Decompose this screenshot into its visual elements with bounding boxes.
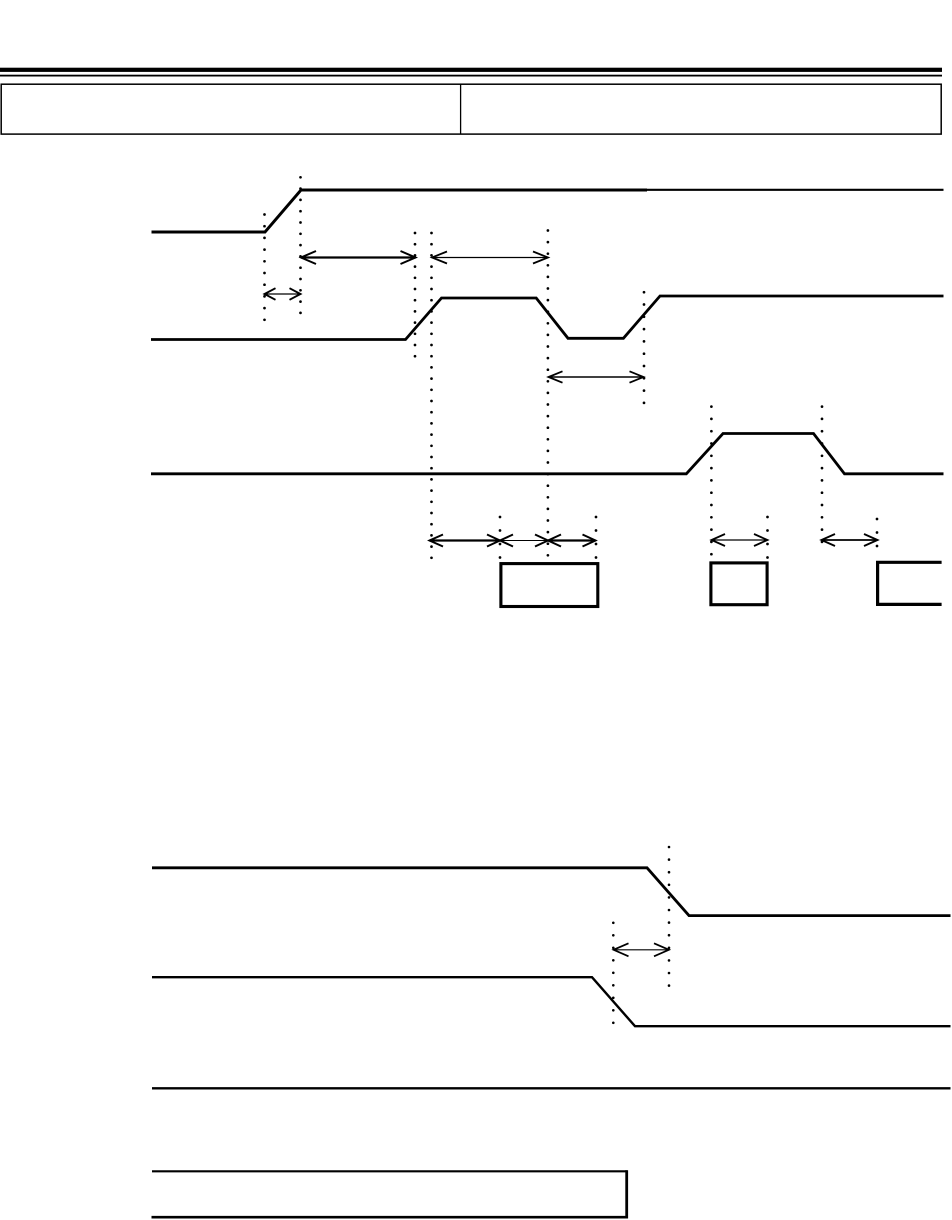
wire W2 signal trace [151, 296, 944, 340]
node D7 dotted reference line [710, 407, 713, 558]
wire W1 continuation [647, 189, 944, 191]
dimension arrow A3 [265, 288, 301, 300]
node D3 dotted reference line [414, 233, 417, 364]
box B2 data window [711, 563, 767, 605]
node D5 dotted reference line [547, 231, 550, 561]
node D2 dotted reference line [299, 177, 302, 323]
header thin rule [0, 75, 942, 77]
dimension arrow A9 [822, 534, 878, 546]
node S1 dotted stub [499, 517, 502, 559]
node E2 dotted reference line [668, 847, 671, 990]
dimension arrow A6 [500, 535, 548, 547]
dimension arrow A4 [549, 371, 644, 382]
dimension arrow A5 [430, 535, 501, 547]
box B1 data window [501, 564, 598, 607]
dimension arrow AD [614, 943, 670, 956]
box B3 data window (open right) [878, 562, 942, 604]
wire L1 steady signal [152, 1087, 951, 1089]
dimension arrow A7 [548, 535, 596, 547]
wire bus valid-data shape top [152, 1170, 627, 1172]
node D4 dotted reference line [430, 233, 433, 563]
table frame [1, 84, 941, 134]
node E1 dotted reference line [612, 923, 615, 1026]
dimension arrow A2 [432, 252, 548, 264]
table divider [460, 84, 462, 134]
node D6 dotted reference line [643, 292, 646, 404]
wire bus valid-data shape bottom [152, 1216, 629, 1219]
wire W1 signal trace [152, 190, 648, 232]
wire WB signal trace [152, 977, 951, 1026]
node S3 dotted stub [766, 517, 769, 559]
node D1 dotted reference line [263, 215, 266, 321]
wire W3 signal trace [151, 434, 944, 474]
dimension arrow A8 [712, 534, 768, 546]
node S4 dotted stub [876, 519, 879, 559]
node S2 dotted stub [595, 517, 598, 559]
header thick rule [0, 68, 942, 72]
dimension arrow A1 [301, 251, 416, 264]
node D8 dotted reference line [821, 407, 824, 554]
wire bus valid-data shape right edge [625, 1170, 628, 1218]
wire WA signal trace [152, 868, 951, 916]
